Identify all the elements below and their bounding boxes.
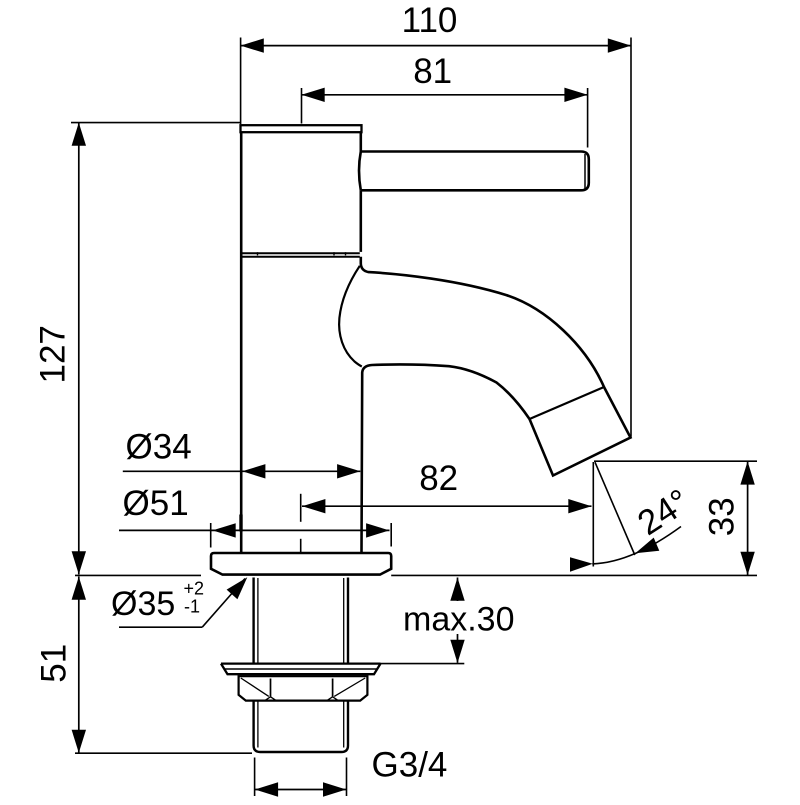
svg-text:max.30: max.30 (403, 601, 515, 639)
dimension 51 (78, 577, 80, 753)
svg-text:Ø34: Ø34 (126, 427, 192, 466)
dimension 127 (71, 122, 240, 124)
svg-text:81: 81 (413, 52, 452, 91)
threaded pipe lower (254, 701, 348, 752)
faucet top cap (241, 125, 362, 132)
faucet body right edge mid (359, 190, 362, 252)
aerator band line (530, 387, 605, 419)
svg-text:Ø51: Ø51 (123, 484, 189, 523)
body joint lines (241, 253, 360, 257)
angle 24 degrees (592, 462, 681, 567)
faucet body right edge upper (359, 132, 362, 151)
dimension 82 (300, 494, 302, 553)
threaded shank upper (254, 578, 348, 664)
joint tick marks (258, 252, 346, 255)
faucet body left edge (240, 132, 243, 553)
handle lever (359, 152, 589, 191)
svg-text:+2: +2 (184, 579, 205, 599)
svg-text:127: 127 (34, 325, 73, 383)
dimension 81 (302, 88, 588, 148)
dimension G3/4 (255, 758, 347, 797)
svg-text:51: 51 (35, 644, 74, 683)
svg-text:G3/4: G3/4 (372, 745, 448, 784)
base flange (211, 553, 391, 575)
spout saddle curve (339, 266, 362, 367)
thick mark on body left line (239, 515, 242, 532)
svg-text:-1: -1 (184, 597, 200, 617)
handle end cap line (584, 154, 586, 189)
dimension 33 (594, 460, 757, 462)
dimension max.30 (457, 578, 459, 663)
svg-text:33: 33 (703, 497, 742, 536)
hex nut (239, 676, 368, 700)
svg-text:110: 110 (402, 1, 458, 40)
svg-text:82: 82 (419, 459, 458, 498)
spout outline (361, 257, 631, 553)
svg-text:Ø35: Ø35 (111, 585, 175, 623)
dimension 110 (241, 38, 631, 437)
mounting surface line (75, 574, 757, 576)
washer (221, 664, 381, 675)
